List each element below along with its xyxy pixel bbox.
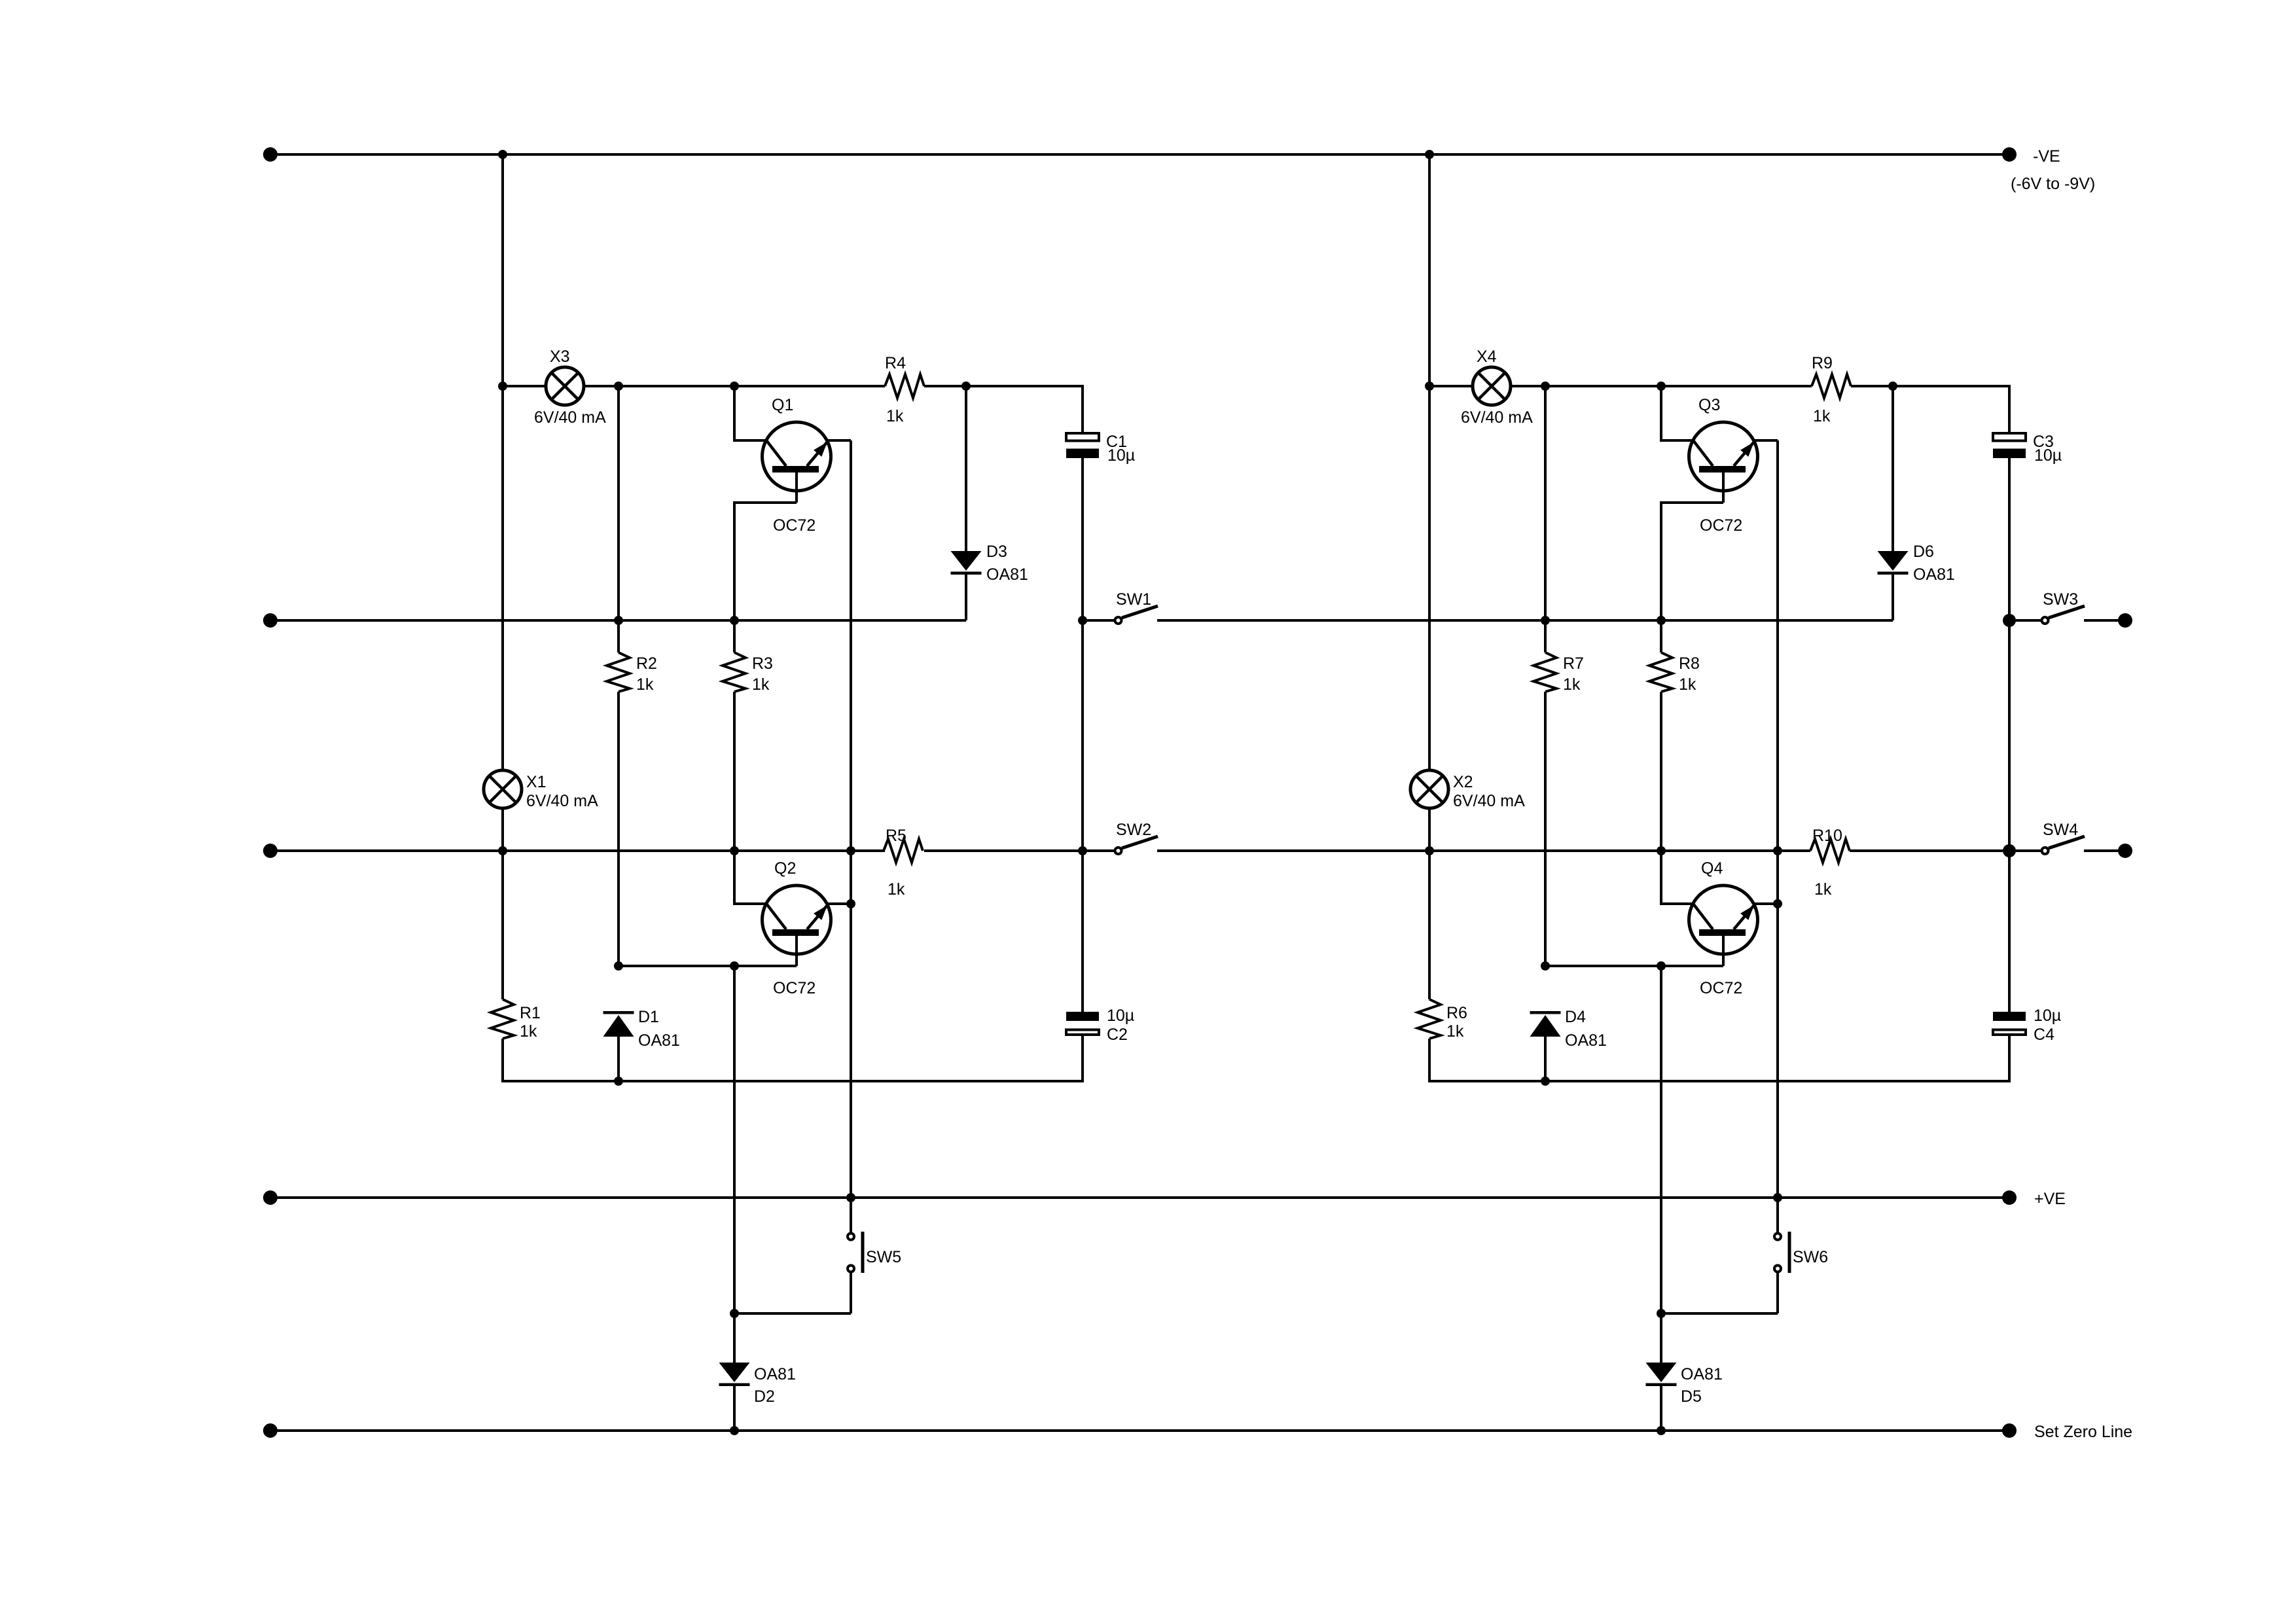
svg-text:SW4: SW4 — [2043, 821, 2078, 839]
wire SW3 fixed lead — [2084, 619, 2121, 622]
switch SW2 — [1083, 836, 1158, 854]
wire SW4 fixed lead — [2084, 849, 2121, 852]
resistor R3 — [723, 652, 745, 692]
svg-text:C2: C2 — [1107, 1026, 1128, 1044]
junction — [846, 899, 855, 908]
junction — [1657, 616, 1666, 625]
lamp X2 — [1410, 770, 1448, 808]
junction — [614, 1077, 623, 1086]
svg-text:R3: R3 — [752, 654, 773, 673]
wire D3 cathode to rail2 — [965, 575, 967, 620]
wire -VE to lamp row — [1428, 154, 1431, 386]
wire SW5 bottom elbow — [1661, 1312, 1778, 1315]
wire lamp X1 bottom lead — [1428, 808, 1431, 851]
svg-text:1k: 1k — [1446, 1022, 1464, 1041]
junction — [1657, 1309, 1666, 1318]
wire Q2 base node down — [733, 966, 736, 1313]
svg-text:6V/40 mA: 6V/40 mA — [526, 792, 598, 810]
wire emitter column to +VE — [1776, 904, 1779, 1198]
junction — [1657, 846, 1666, 855]
wire SW5 bottom elbow — [734, 1312, 851, 1315]
svg-text:R7: R7 — [1563, 654, 1584, 673]
svg-text:R6: R6 — [1446, 1004, 1467, 1022]
junction — [498, 846, 507, 855]
svg-text:OC72: OC72 — [773, 516, 816, 535]
svg-text:1k: 1k — [1563, 675, 1581, 694]
svg-text:OA81: OA81 — [1913, 565, 1955, 584]
svg-text:OA81: OA81 — [986, 565, 1028, 584]
lamp X3 — [546, 367, 584, 405]
wire -VE to lamp row — [501, 154, 504, 386]
transistor Q2 — [762, 885, 831, 966]
svg-text:Q3: Q3 — [1698, 396, 1720, 414]
svg-text:D3: D3 — [986, 543, 1007, 561]
wire R1 bottom corner — [503, 1036, 1083, 1081]
junction — [1078, 616, 1087, 625]
wire lamp X1 bottom lead — [501, 808, 504, 851]
wire lamp right lead — [583, 385, 885, 387]
svg-text:OC72: OC72 — [1700, 516, 1742, 535]
svg-text:D5: D5 — [1681, 1387, 1702, 1406]
svg-text:OA81: OA81 — [1565, 1031, 1607, 1050]
junction — [730, 616, 739, 625]
resistor R10 — [1810, 839, 1850, 863]
junction — [498, 382, 507, 391]
wire emitter column to +VE — [850, 904, 852, 1198]
svg-text:SW1: SW1 — [1116, 590, 1151, 609]
wire Q1 base elbow — [1661, 503, 1723, 620]
transistor Q4 — [1689, 885, 1758, 966]
junction — [614, 382, 623, 391]
junction — [1657, 1426, 1666, 1435]
capacitor C4 — [1993, 1012, 2026, 1035]
wire D2 cathode to Set Zero — [1660, 1386, 1662, 1431]
wire R4 right to cap corner — [1851, 386, 2009, 433]
junction — [961, 382, 971, 391]
wire D2 top lead — [733, 1313, 736, 1363]
wire R2 bottom to D1 — [617, 692, 620, 966]
wire R3 bottom to rail3 — [733, 692, 736, 851]
junction — [498, 150, 507, 159]
junction — [1541, 961, 1550, 971]
wire rail 3 left segment — [270, 849, 885, 852]
svg-text:1k: 1k — [1814, 880, 1832, 899]
wire Q2 collector feed — [734, 851, 766, 904]
svg-text:+VE: +VE — [2034, 1190, 2066, 1208]
resistor R4 — [885, 374, 924, 398]
terminal SW3 right — [2118, 613, 2132, 628]
svg-text:Set Zero Line: Set Zero Line — [2034, 1423, 2132, 1441]
junction — [1541, 382, 1550, 391]
diode D3 — [951, 551, 982, 575]
wire D3 anode lead — [1892, 386, 1894, 551]
lamp X1 — [484, 770, 522, 808]
wire rail 2 middle segment (SW1 to D6) — [1157, 619, 1893, 622]
wire D3 cathode to rail2 — [1892, 575, 1894, 620]
svg-text:6V/40 mA: 6V/40 mA — [534, 408, 606, 427]
wire rail2 crossing column — [1428, 386, 1431, 770]
wire cap C1 to SW junction — [1081, 458, 1084, 620]
svg-text:OC72: OC72 — [1700, 979, 1742, 997]
svg-text:X3: X3 — [550, 348, 570, 366]
svg-text:SW5: SW5 — [866, 1248, 901, 1266]
wire R3 leads — [1660, 620, 1662, 652]
svg-text:Q2: Q2 — [774, 859, 796, 878]
junction — [730, 1426, 739, 1435]
junction — [730, 846, 739, 855]
resistor R8 — [1649, 652, 1672, 692]
wire Q1 emitter stub — [828, 439, 851, 442]
diode D5 — [1646, 1363, 1677, 1386]
svg-text:1k: 1k — [1813, 407, 1831, 425]
junction — [1078, 846, 1087, 855]
wire rail2 crossing column — [501, 386, 504, 770]
junction — [1773, 846, 1782, 855]
wire D1 anode lead — [1544, 1037, 1547, 1081]
junction — [1773, 899, 1782, 908]
junction — [1541, 616, 1550, 625]
switch SW5 — [848, 1198, 865, 1313]
junction — [1541, 1077, 1550, 1086]
junction — [614, 961, 623, 971]
wire rail 3 middle segment (SW2 onward) — [1157, 849, 1810, 852]
wire lamp right node down — [617, 386, 620, 652]
wire Q1 collector feed — [734, 386, 766, 440]
svg-text:SW6: SW6 — [1793, 1248, 1828, 1266]
svg-text:OA81: OA81 — [754, 1365, 796, 1383]
wire R1 bottom corner — [1429, 1036, 2009, 1081]
terminal -VE right — [2002, 147, 2017, 162]
transistor Q3 — [1689, 422, 1758, 503]
svg-text:1k: 1k — [1679, 675, 1696, 694]
svg-text:6V/40 mA: 6V/40 mA — [1461, 408, 1533, 427]
svg-text:X4: X4 — [1477, 348, 1497, 366]
svg-text:OA81: OA81 — [1681, 1365, 1723, 1383]
wire -VE rail — [270, 153, 2009, 156]
wire lamp left lead — [1429, 385, 1474, 387]
lamp X4 — [1473, 367, 1511, 405]
junction — [730, 382, 739, 391]
diode D2 — [719, 1363, 750, 1386]
svg-text:10µ: 10µ — [2034, 1007, 2061, 1025]
svg-text:D6: D6 — [1913, 543, 1934, 561]
resistor R9 — [1812, 374, 1851, 398]
svg-text:D4: D4 — [1565, 1008, 1586, 1026]
diode D6 — [1878, 551, 1909, 575]
junction — [2003, 844, 2016, 857]
wire Q1 emitter stub — [1755, 439, 1778, 442]
resistor R6 — [1418, 999, 1441, 1039]
resistor R5 — [884, 839, 923, 863]
wire lamp left lead — [503, 385, 547, 387]
wire lamp right node down — [1544, 386, 1547, 652]
wire input rail 2 left segment — [270, 619, 966, 622]
wire Q2 collector feed — [1661, 851, 1693, 904]
svg-text:10µ: 10µ — [1107, 446, 1135, 465]
wire Q2 emitter stub — [828, 902, 851, 905]
capacitor C1 — [1066, 433, 1099, 458]
wire Q2 emitter stub — [1755, 902, 1778, 905]
svg-text:X1: X1 — [526, 773, 547, 791]
terminal -VE left — [263, 147, 278, 162]
junction — [1773, 1193, 1782, 1202]
resistor R2 — [607, 652, 630, 692]
svg-text:1k: 1k — [520, 1022, 537, 1041]
diode D1 — [603, 1011, 634, 1037]
switch SW6 — [1774, 1198, 1791, 1313]
wire SW junction to C2 — [2008, 620, 2011, 1012]
svg-text:R9: R9 — [1812, 354, 1833, 372]
terminal +VE left — [263, 1190, 278, 1205]
terminal Set Zero left — [263, 1423, 278, 1438]
wire Q1 base elbow — [734, 503, 797, 620]
svg-text:R1: R1 — [520, 1004, 541, 1022]
wire SW junction to C2 — [1081, 620, 1084, 1012]
svg-text:10µ: 10µ — [1107, 1007, 1134, 1025]
svg-text:X2: X2 — [1453, 773, 1473, 791]
capacitor C3 — [1993, 433, 2026, 458]
wire rail 3 left zig right part — [924, 849, 1082, 852]
junction — [1425, 382, 1434, 391]
junction — [2003, 614, 2016, 627]
wire Q1 collector feed — [1661, 386, 1693, 440]
wire R3 leads — [733, 620, 736, 652]
wire rail 3 right zig to SW4 — [1850, 849, 2009, 852]
wire R1 top lead — [501, 851, 504, 999]
svg-text:D1: D1 — [638, 1008, 659, 1026]
wire D3 anode lead — [965, 386, 967, 551]
wire Q2 base node down — [1660, 966, 1662, 1313]
resistor R7 — [1534, 652, 1556, 692]
svg-text:SW3: SW3 — [2043, 590, 2078, 609]
svg-text:Q1: Q1 — [772, 396, 793, 414]
junction — [730, 961, 739, 971]
wire R5 left lead — [851, 849, 885, 852]
svg-text:R4: R4 — [885, 354, 906, 372]
junction — [1657, 382, 1666, 391]
svg-text:R10: R10 — [1812, 827, 1842, 845]
wire emitter column — [850, 440, 852, 904]
terminal rail3 left — [263, 844, 278, 858]
wire D2 top lead — [1660, 1313, 1662, 1363]
wire R2 bottom to D1 — [1544, 692, 1547, 966]
wire R4 right to cap corner — [924, 386, 1083, 433]
svg-text:R2: R2 — [636, 654, 657, 673]
svg-text:1k: 1k — [888, 880, 905, 899]
svg-text:OA81: OA81 — [638, 1031, 680, 1050]
junction — [1657, 961, 1666, 971]
switch SW1 — [1083, 606, 1158, 624]
junction — [614, 616, 623, 625]
wire lamp right lead — [1509, 385, 1812, 387]
svg-text:OC72: OC72 — [773, 979, 816, 997]
wire +VE rail — [270, 1196, 2009, 1199]
svg-text:1k: 1k — [636, 675, 654, 694]
diode D4 — [1530, 1011, 1561, 1037]
wire Q2 base row — [1545, 965, 1723, 967]
wire D2 cathode to Set Zero — [733, 1386, 736, 1431]
terminal SW4 right — [2118, 844, 2132, 858]
wire emitter column — [1776, 440, 1779, 904]
switch SW4 — [2009, 836, 2085, 854]
svg-text:R8: R8 — [1679, 654, 1700, 673]
svg-text:Q4: Q4 — [1701, 859, 1723, 878]
svg-text:R5: R5 — [886, 827, 906, 845]
wire Q2 base row — [619, 965, 797, 967]
svg-text:1k: 1k — [752, 675, 770, 694]
terminal rail2 left — [263, 613, 278, 628]
transistor Q1 — [762, 422, 831, 503]
terminal +VE right — [2002, 1190, 2017, 1205]
wire R5 right lead — [924, 849, 966, 852]
wire Set Zero Line rail — [270, 1429, 2009, 1432]
junction — [1425, 846, 1434, 855]
capacitor C2 — [1066, 1012, 1099, 1035]
switch SW3 — [2009, 606, 2085, 624]
svg-text:SW2: SW2 — [1116, 821, 1151, 839]
wire D1 anode lead — [617, 1037, 620, 1081]
svg-text:10µ: 10µ — [2034, 446, 2062, 465]
svg-text:D2: D2 — [754, 1387, 775, 1406]
junction — [1425, 150, 1434, 159]
svg-text:1k: 1k — [886, 407, 904, 425]
junction — [730, 1309, 739, 1318]
junction — [846, 846, 855, 855]
wire R1 top lead — [1428, 851, 1431, 999]
svg-text:C4: C4 — [2034, 1026, 2054, 1044]
junction — [1888, 382, 1897, 391]
wire R3 bottom to rail3 — [1660, 692, 1662, 851]
svg-text:-VE: -VE — [2033, 147, 2060, 166]
svg-text:6V/40 mA: 6V/40 mA — [1453, 792, 1525, 810]
terminal Set Zero right — [2002, 1423, 2017, 1438]
svg-text:(-6V to -9V): (-6V to -9V) — [2011, 175, 2095, 193]
resistor R1 — [491, 999, 514, 1039]
wire cap C1 to SW junction — [2008, 458, 2011, 620]
junction — [846, 1193, 855, 1202]
